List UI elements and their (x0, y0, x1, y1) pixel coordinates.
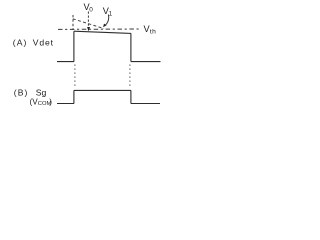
svg-text:(B): (B) (14, 87, 29, 97)
wire: waveform A falling edge (130, 33, 132, 61)
label V1 (103, 6, 113, 17)
wire: V0 leader dashed shaft (87, 12, 89, 27)
node: V0 arrowhead (87, 27, 90, 31)
label (B) Sg (14, 87, 47, 97)
svg-text:0: 0 (89, 6, 93, 13)
wire: waveform B falling edge (130, 90, 132, 103)
svg-text:th: th (150, 28, 156, 35)
wire: waveform A rising edge (73, 31, 75, 61)
wire: V1 curved leader (106, 15, 109, 26)
svg-text:g: g (42, 87, 47, 97)
wire: waveform A sloping top (74, 31, 131, 33)
svg-text:1: 1 (109, 10, 113, 17)
wire: waveform B low segment left (57, 103, 74, 105)
wire: waveform A Vdet low segment left (57, 61, 74, 63)
node: dotted timing connector at rising edges (74, 65, 76, 89)
svg-text:det: det (39, 37, 54, 47)
svg-text:): ) (49, 97, 52, 106)
label (A) Vdet (13, 37, 54, 47)
label Vth (144, 24, 157, 35)
label V0 (84, 2, 94, 13)
svg-text:V: V (33, 37, 39, 47)
node: threshold level Vth dashed line (58, 28, 141, 30)
node: dashed vertical extension above rising edge (72, 15, 74, 30)
wire: waveform B low segment right (131, 103, 160, 105)
label (Vcom) (30, 97, 53, 107)
wire: waveform A low segment right (131, 61, 161, 63)
svg-text:(A): (A) (13, 37, 28, 47)
node: dotted timing connector at falling edges (129, 65, 131, 89)
wire: waveform B high segment (74, 89, 131, 91)
wire: waveform B rising edge (73, 90, 75, 103)
node: V0 decay sloped dashed line (73, 19, 104, 29)
node: V1 arrowhead (103, 24, 107, 28)
